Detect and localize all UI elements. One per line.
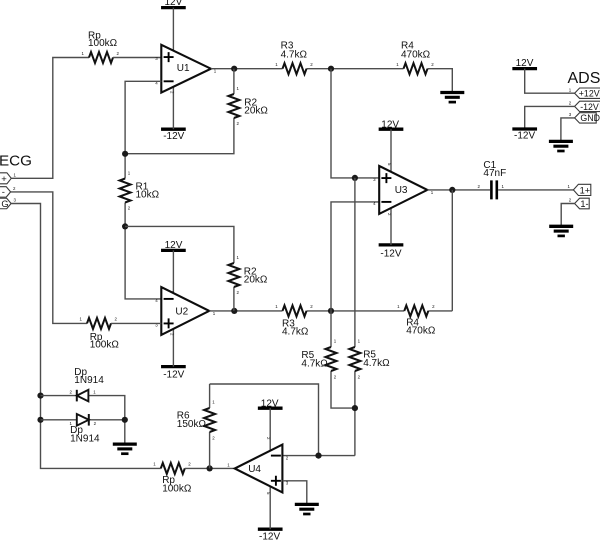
wire Rp2 to U2 + (111, 322, 161, 324)
wire GND pin to ground (561, 118, 575, 141)
svg-text:150kΩ: 150kΩ (177, 419, 207, 430)
ECG pin G flag (0, 198, 17, 210)
power +12V rail U1 (161, 0, 186, 8)
diode Dp 1N914 (top) (70, 367, 105, 402)
resistor Rp (U1 input) 100k (82, 30, 120, 63)
ECG pin + flag (0, 173, 17, 186)
resistor R3 (top) 4.7k (275, 41, 313, 75)
wire ECG- to Rp2 (11, 192, 87, 324)
svg-text:47nF: 47nF (483, 168, 506, 179)
wire U2 output row (209, 310, 452, 312)
capacitor C1 47nF (478, 160, 507, 200)
wire ECG+ to Rp (11, 58, 89, 179)
wire U2 to -12V (169, 329, 174, 367)
node U3 + branch (352, 175, 358, 181)
resistor R3 (bottom) 4.7k (275, 304, 313, 337)
diode Dp 1N914 (bottom) (70, 414, 101, 445)
ECG connector title (0, 153, 32, 170)
svg-text:12V: 12V (516, 58, 534, 69)
wire 12V to U2 (169, 250, 174, 294)
connector pin GND (569, 112, 600, 123)
svg-text:470kΩ: 470kΩ (401, 49, 431, 60)
wire D2 leads (41, 419, 125, 421)
resistor R1 10k (120, 171, 160, 211)
resistor R5 (left) 4.7k (301, 339, 336, 380)
svg-text:G: G (1, 199, 8, 209)
svg-text:100kΩ: 100kΩ (162, 483, 192, 494)
svg-text:ECG: ECG (0, 153, 32, 170)
svg-text:12V: 12V (381, 120, 399, 131)
wire R6 top to U4 - junction (210, 384, 319, 456)
svg-text:U2: U2 (175, 307, 188, 318)
node G-D2 junction (37, 417, 43, 423)
resistor Rp (U4) 100k (153, 462, 192, 495)
svg-text:100kΩ: 100kΩ (90, 340, 120, 351)
wire Rp to U1 + (113, 57, 161, 59)
node R3-R4 junction bottom (328, 308, 334, 314)
power -12V rail U3 (379, 245, 404, 260)
node U4 output junction (207, 465, 213, 471)
wire U3 to -12V (387, 208, 392, 245)
svg-text:-12V: -12V (259, 532, 280, 543)
svg-text:12V: 12V (165, 0, 183, 8)
svg-text:20kΩ: 20kΩ (244, 274, 268, 285)
svg-text:-12V: -12V (163, 370, 184, 381)
node R2-R1 junction upper (122, 151, 128, 157)
ECG pin - flag (0, 186, 16, 198)
power +12V rail U3 (379, 120, 404, 131)
connector pin 1+ (568, 184, 591, 196)
wire 1- to ground (561, 204, 574, 227)
wire R6 leads (209, 384, 211, 468)
node G-D1 junction (37, 393, 43, 399)
wire U1 to -12V (169, 87, 174, 130)
svg-text:4.7kΩ: 4.7kΩ (282, 327, 309, 338)
op-amp U2 (155, 287, 216, 335)
wire U4 + to ground (282, 481, 306, 505)
wire R5 left branch (331, 311, 355, 408)
svg-text:4.7kΩ: 4.7kΩ (301, 358, 328, 369)
svg-text:1+: 1+ (580, 186, 590, 196)
svg-text:+: + (1, 174, 7, 185)
svg-text:10kΩ: 10kΩ (136, 190, 160, 201)
resistor R4 (bottom) 470k (397, 304, 436, 336)
wire U3 output down to R4 bottom (451, 190, 453, 311)
svg-text:+12V: +12V (579, 89, 600, 99)
wire 12V to U1 (169, 8, 174, 52)
wire D1 leads (41, 396, 125, 444)
power -12V rail U2 (161, 367, 186, 381)
wire 12V to U3 (387, 129, 392, 172)
op-amp U1 (155, 45, 217, 93)
power +12V rail U2 (161, 240, 186, 251)
ADS connector title (568, 70, 600, 87)
wire R3R4 top junction to U3 + (331, 69, 379, 178)
svg-text:4.7kΩ: 4.7kΩ (363, 358, 390, 369)
svg-text:1N914: 1N914 (70, 434, 100, 445)
power -12V rail U1 (161, 129, 186, 142)
svg-text:-12V: -12V (514, 131, 535, 142)
wire U4 to -12V (266, 486, 271, 529)
node R1-R2 junction lower (122, 223, 128, 229)
resistor R2 (U1 feedback) 20k (125, 69, 268, 154)
svg-text:100kΩ: 100kΩ (88, 38, 118, 49)
svg-text:-12V: -12V (580, 102, 599, 112)
power +12V rail U4 (258, 398, 283, 409)
ground below 1- (549, 226, 573, 236)
svg-text:1N914: 1N914 (74, 375, 104, 386)
resistor R6 150k (177, 400, 216, 441)
resistor R2 (U2 feedback) 20k (125, 226, 268, 311)
svg-text:12V: 12V (261, 398, 279, 409)
connector pin 1- (569, 198, 590, 210)
wire U4 - input row (282, 455, 355, 457)
svg-text:-12V: -12V (163, 131, 184, 142)
node U1 output (231, 66, 237, 72)
resistor Rp (U2 input) 100k (80, 317, 120, 351)
node R5 bottom junction (352, 405, 358, 411)
wire U3 - to lower net (331, 202, 379, 311)
power -12V rail U4 (258, 529, 283, 543)
node U4 - junction (315, 453, 321, 459)
ground U4 + (295, 504, 319, 514)
wire C1 to 1+ pin (498, 189, 573, 191)
svg-text:1-: 1- (580, 199, 588, 209)
resistor R4 (top) 470k (396, 41, 434, 75)
svg-text:U3: U3 (395, 185, 408, 196)
svg-text:-12V: -12V (380, 249, 401, 260)
wire Rp3 to U4 output (185, 467, 235, 469)
power 12V rail ADS (512, 58, 537, 69)
svg-text:12V: 12V (165, 240, 183, 251)
svg-text:470kΩ: 470kΩ (406, 326, 436, 337)
svg-text:4.7kΩ: 4.7kΩ (281, 49, 308, 60)
node U3 output (449, 187, 455, 193)
ground diodes (113, 444, 137, 454)
wire R5 right branch (354, 178, 356, 456)
svg-text:U1: U1 (177, 63, 190, 74)
svg-text:U4: U4 (248, 464, 261, 475)
svg-text:-: - (2, 187, 5, 198)
svg-text:20kΩ: 20kΩ (244, 105, 268, 116)
connector pin +12V (569, 87, 600, 98)
node U2 output (231, 308, 237, 314)
wire U3 output to C1 (427, 189, 490, 191)
wire U1 output row (211, 69, 452, 93)
wire ECG G vertical to bottom row (11, 204, 161, 469)
svg-text:ADS: ADS (568, 70, 600, 87)
wire 12V to +12V pin (525, 69, 575, 94)
svg-text:GND: GND (580, 113, 600, 123)
wire U1 inverting input / R1 net (125, 81, 161, 299)
op-amp U3 (373, 166, 434, 214)
ground after R4 top (440, 93, 464, 103)
wire 12V to U4 (266, 408, 271, 451)
power -12V rail ADS (512, 129, 537, 142)
connector pin -12V (569, 101, 600, 112)
node R3-R4 junction top (328, 66, 334, 72)
wire -12V pin to rail (525, 106, 575, 129)
resistor R5 (right) 4.7k (349, 339, 390, 380)
ground ADS (549, 141, 573, 151)
node D2 ground junction (122, 417, 128, 423)
op-amp U4 (227, 445, 288, 493)
